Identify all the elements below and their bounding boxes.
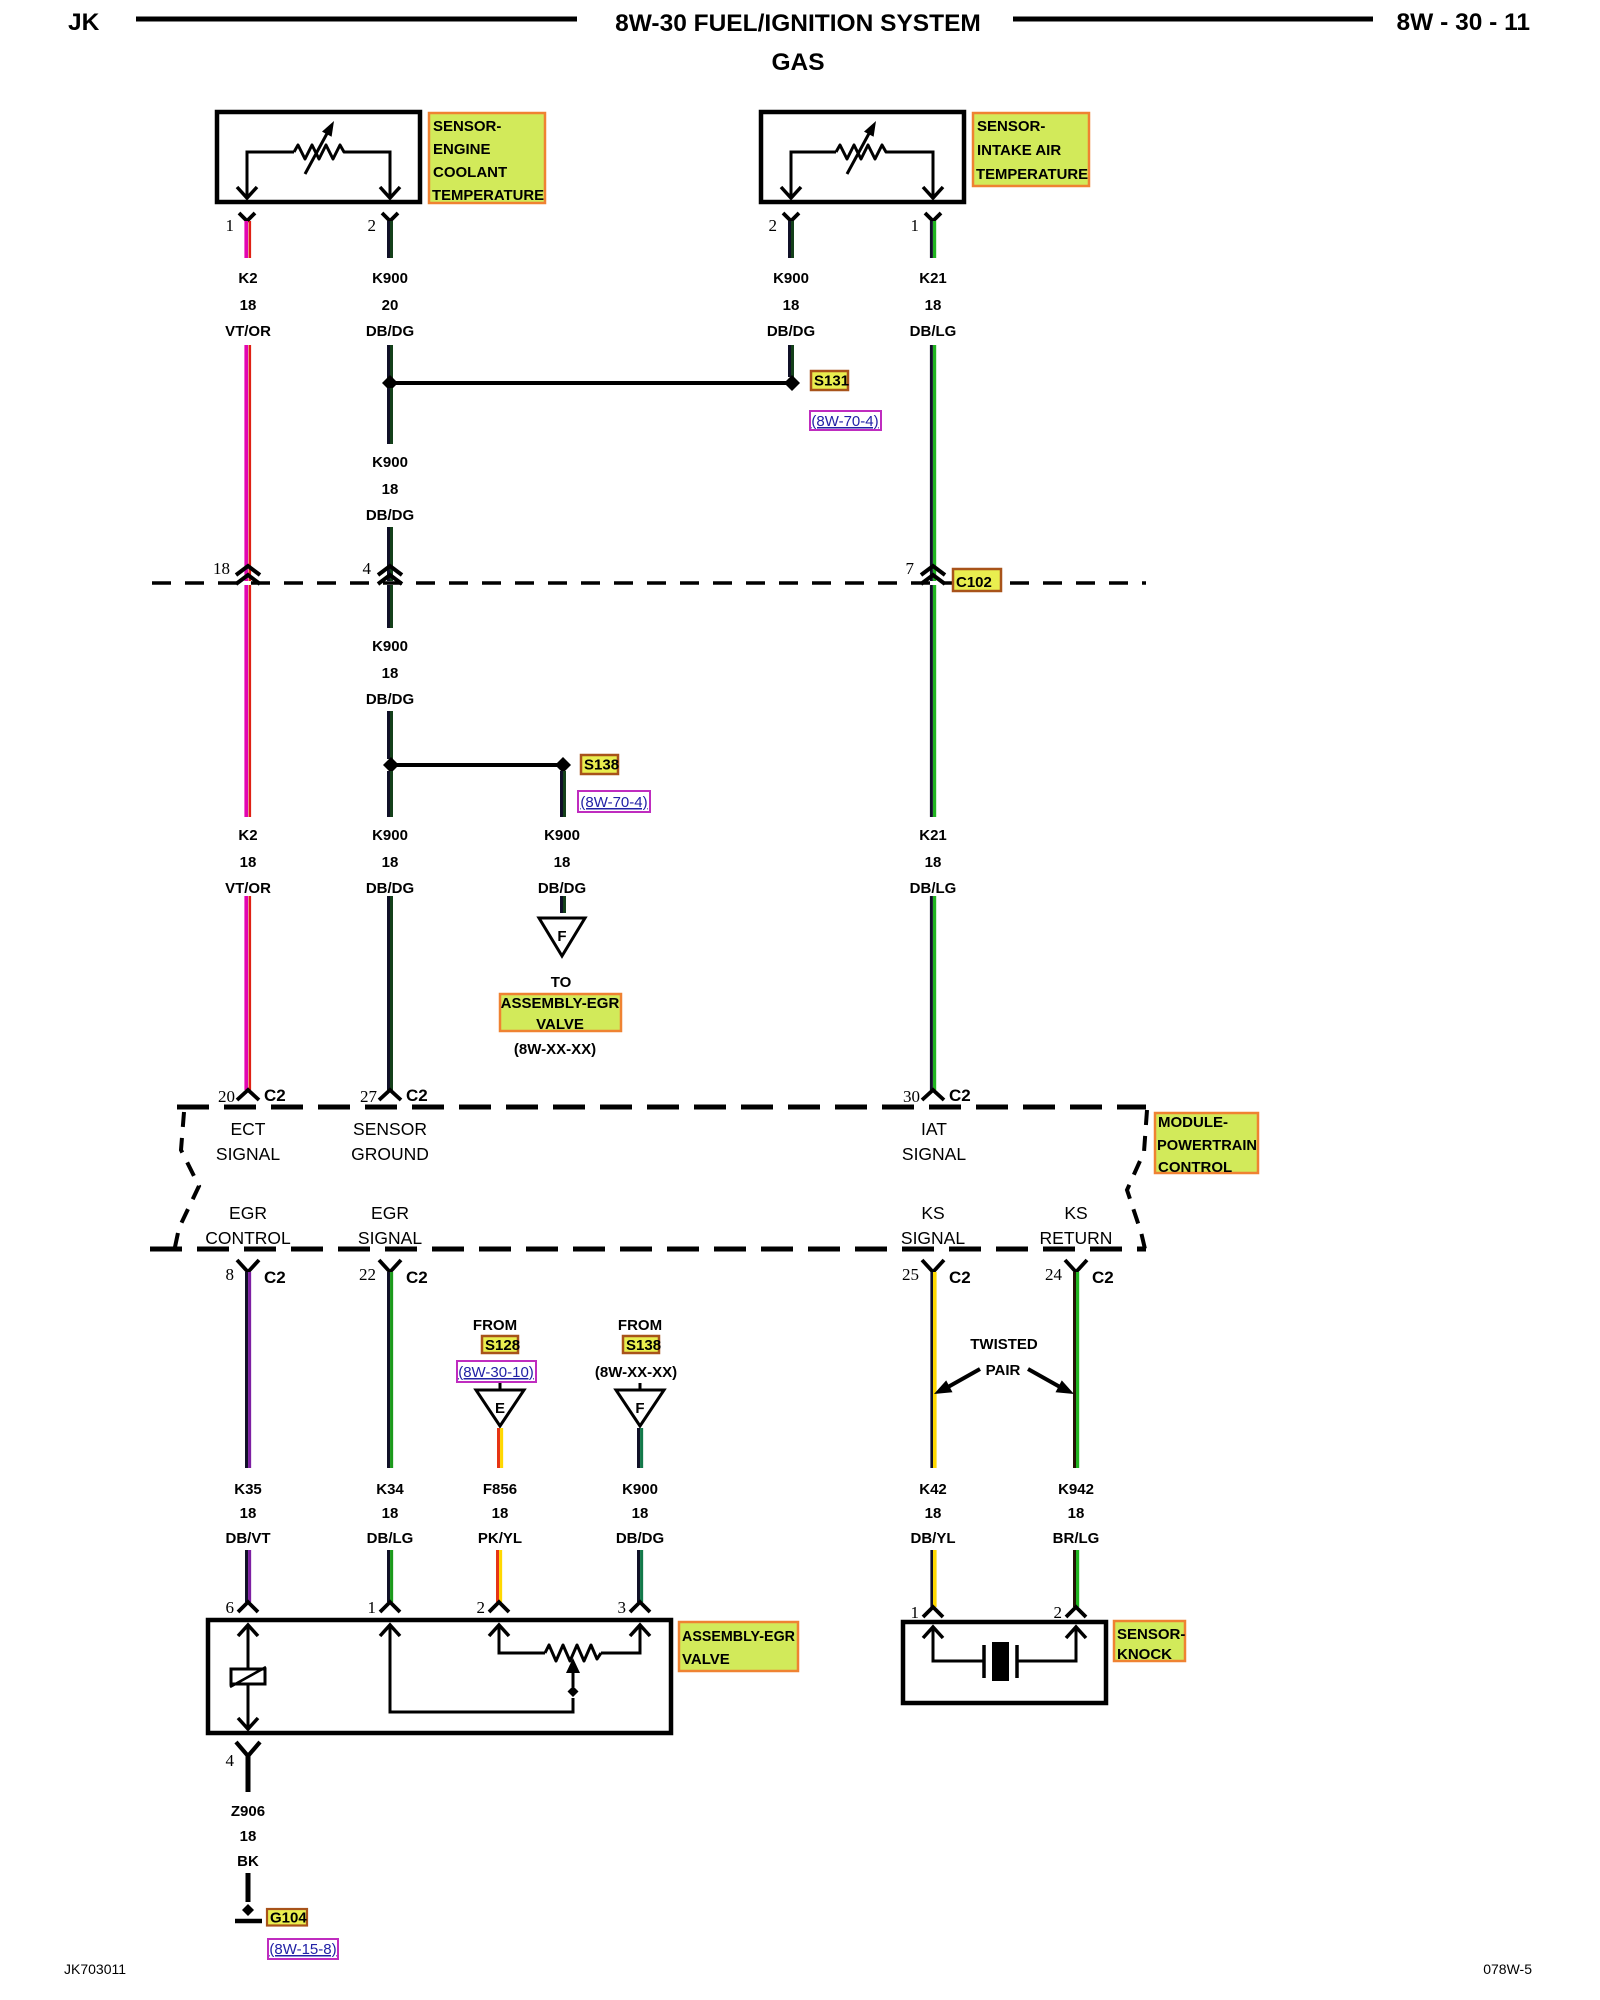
svg-text:PAIR: PAIR xyxy=(986,1362,1021,1379)
svg-text:SENSOR-: SENSOR- xyxy=(977,118,1045,135)
IAT pin 1 connector Y xyxy=(925,213,941,221)
splice S138 bus wire xyxy=(391,763,563,767)
wire K900 DB/DG stub below F xyxy=(639,1428,642,1468)
EGR pin 4 connector Y xyxy=(236,1742,260,1756)
svg-text:K2: K2 xyxy=(238,827,257,844)
EGR potentiometer resistor xyxy=(545,1645,601,1661)
splice tag S128 xyxy=(482,1336,520,1354)
svg-text:DB/DG: DB/DG xyxy=(538,880,586,897)
svg-text:K900: K900 xyxy=(372,454,408,471)
svg-text:18: 18 xyxy=(240,1828,257,1845)
svg-text:S138: S138 xyxy=(626,1337,661,1354)
svg-text:DB/LG: DB/LG xyxy=(367,1530,414,1547)
splice S138 junction diamond left xyxy=(383,757,399,773)
ECT pin 2 connector Y xyxy=(382,213,398,221)
wire K900 below C102 xyxy=(389,585,392,628)
wire K21 run below C102 xyxy=(931,585,934,817)
wire Z906 run to ground xyxy=(246,1873,251,1902)
EGR pin 6 internal arrowhead xyxy=(238,1625,258,1636)
svg-text:18: 18 xyxy=(382,481,399,498)
wire K900 run to EGR pin 3 xyxy=(639,1550,642,1602)
wire K900 branch stub above F symbol xyxy=(562,896,565,913)
svg-text:18: 18 xyxy=(783,297,800,314)
wire label K900 18 DB/DG xyxy=(366,454,414,524)
svg-text:1: 1 xyxy=(911,216,920,235)
sensor IAT box outline xyxy=(761,112,964,202)
svg-text:C2: C2 xyxy=(264,1268,286,1287)
wire K2 run below C102 xyxy=(246,585,250,817)
wire K942 BR/LG run xyxy=(1075,1272,1078,1468)
wire label K900 18 DB/DG xyxy=(366,827,414,897)
svg-text:PK/YL: PK/YL xyxy=(478,1530,522,1547)
sensor ECT box outline xyxy=(217,112,420,202)
svg-text:CONTROL: CONTROL xyxy=(1158,1159,1232,1176)
svg-text:18: 18 xyxy=(382,854,399,871)
EGR pin 2 connector caret xyxy=(489,1602,509,1612)
knock pin 2 connector caret xyxy=(1066,1607,1086,1617)
header rule left xyxy=(136,17,577,22)
wire label K900 18 DB/DG xyxy=(767,270,815,340)
svg-text:FROM: FROM xyxy=(473,1317,517,1334)
svg-text:F: F xyxy=(635,1400,644,1417)
svg-text:MODULE-: MODULE- xyxy=(1158,1114,1228,1131)
EGR pin 3 internal arrowhead xyxy=(630,1625,650,1636)
EGR solenoid feed wire xyxy=(247,1625,250,1668)
PCM pin 8 connector Y xyxy=(237,1260,259,1272)
svg-text:K34: K34 xyxy=(376,1481,404,1498)
splice tag S131 xyxy=(811,371,849,390)
label ASSEMBLY-EGR VALVE xyxy=(679,1622,798,1671)
wire K2 VT/OR pin stub xyxy=(246,221,250,258)
knock pin 2 internal arrowhead xyxy=(1066,1627,1086,1638)
svg-text:VALVE: VALVE xyxy=(682,1651,730,1668)
IAT pin 2 arrowhead xyxy=(781,187,801,198)
svg-text:DB/LG: DB/LG xyxy=(910,880,957,897)
link (8W-70-4) xyxy=(578,791,650,812)
svg-text:K35: K35 xyxy=(234,1481,262,1498)
wire label F856 18 PK/YL xyxy=(478,1481,522,1547)
svg-text:18: 18 xyxy=(1068,1505,1085,1522)
svg-text:18: 18 xyxy=(632,1505,649,1522)
PCM pin 27 connector caret xyxy=(379,1090,401,1100)
svg-text:(8W-XX-XX): (8W-XX-XX) xyxy=(595,1364,677,1381)
wire K21 DB/LG pin stub xyxy=(931,221,934,258)
PCM pin name IAT SIGNAL xyxy=(902,1119,966,1164)
svg-text:F856: F856 xyxy=(483,1481,517,1498)
wire label K2 18 VT/OR xyxy=(225,270,271,340)
off-page symbol E from S128 xyxy=(476,1383,524,1426)
wire label K900 18 DB/DG branch xyxy=(538,827,586,897)
label SENSOR-ENGINE COOLANT TEMPERATURE xyxy=(429,113,545,204)
IAT thermistor arrowhead xyxy=(864,121,876,137)
svg-text:ASSEMBLY-EGR: ASSEMBLY-EGR xyxy=(682,1628,795,1645)
svg-text:RETURN: RETURN xyxy=(1040,1228,1113,1248)
label SENSOR-KNOCK xyxy=(1114,1621,1185,1663)
svg-text:C2: C2 xyxy=(406,1086,428,1105)
wire K900 DB/DG pin stub xyxy=(389,221,392,258)
svg-text:E: E xyxy=(495,1400,505,1417)
svg-text:DB/YL: DB/YL xyxy=(911,1530,956,1547)
svg-text:20: 20 xyxy=(382,297,399,314)
svg-text:8W - 30 - 11: 8W - 30 - 11 xyxy=(1397,9,1530,36)
svg-text:18: 18 xyxy=(382,665,399,682)
svg-text:K900: K900 xyxy=(372,827,408,844)
EGR wiper junction diamond xyxy=(568,1686,579,1697)
wire K900 below S138 xyxy=(389,771,392,817)
svg-text:EGR: EGR xyxy=(229,1203,267,1223)
svg-text:4: 4 xyxy=(363,559,372,578)
knock element right lead xyxy=(1017,1627,1076,1661)
svg-text:C2: C2 xyxy=(406,1268,428,1287)
svg-text:18: 18 xyxy=(382,1505,399,1522)
svg-text:KS: KS xyxy=(1064,1203,1087,1223)
wire K35 DB/VT run xyxy=(247,1272,250,1468)
svg-text:COOLANT: COOLANT xyxy=(433,164,507,181)
wire label K2 18 VT/OR xyxy=(225,827,271,897)
svg-text:K2: K2 xyxy=(238,270,257,287)
svg-text:DB/DG: DB/DG xyxy=(366,507,414,524)
svg-text:DB/DG: DB/DG xyxy=(767,323,815,340)
EGR solenoid return wire xyxy=(247,1685,250,1729)
svg-text:VT/OR: VT/OR xyxy=(225,880,271,897)
svg-text:(8W-70-4): (8W-70-4) xyxy=(580,794,647,811)
svg-text:DB/DG: DB/DG xyxy=(366,880,414,897)
wire K900 run to C102 xyxy=(389,527,392,581)
svg-text:DB/LG: DB/LG xyxy=(910,323,957,340)
svg-text:(8W-15-8): (8W-15-8) xyxy=(269,1941,336,1958)
svg-text:TWISTED: TWISTED xyxy=(970,1336,1038,1353)
splice S131 bus wire xyxy=(390,381,792,385)
ground symbol G104 xyxy=(235,1904,262,1921)
svg-text:DB/DG: DB/DG xyxy=(616,1530,664,1547)
ECT pin 1 arrowhead xyxy=(237,187,257,198)
PCM left dashed bracket xyxy=(175,1112,199,1247)
wire label K35 18 DB/VT xyxy=(226,1481,271,1547)
svg-text:2: 2 xyxy=(1054,1603,1063,1622)
svg-text:BK: BK xyxy=(237,1853,259,1870)
svg-text:1: 1 xyxy=(911,1603,920,1622)
EGR valve box outline xyxy=(208,1620,671,1733)
ECT thermistor arrowhead xyxy=(322,121,334,137)
EGR pin 6 connector caret xyxy=(238,1602,258,1612)
link (8W-70-4) xyxy=(810,411,881,430)
svg-text:27: 27 xyxy=(360,1087,378,1106)
svg-text:18: 18 xyxy=(925,297,942,314)
PCM pin name ECT SIGNAL xyxy=(216,1119,280,1164)
svg-text:G104: G104 xyxy=(270,1910,307,1927)
connector tag C102 xyxy=(953,569,1001,591)
svg-text:JK703011: JK703011 xyxy=(64,1961,126,1977)
ECT internal thermistor wiring xyxy=(247,128,390,198)
PCM pin 30 connector caret xyxy=(922,1090,944,1100)
svg-text:2: 2 xyxy=(477,1598,486,1617)
svg-text:18: 18 xyxy=(925,854,942,871)
svg-text:Z906: Z906 xyxy=(231,1803,265,1820)
header rule right xyxy=(1013,17,1373,22)
ECT pin 2 arrowhead xyxy=(380,187,400,198)
svg-text:2: 2 xyxy=(769,216,778,235)
svg-text:INTAKE AIR: INTAKE AIR xyxy=(977,142,1061,159)
EGR potentiometer left lead xyxy=(499,1625,545,1653)
knock element left lead xyxy=(933,1627,984,1661)
wire K2 run to PCM pin 20 xyxy=(246,896,250,1090)
PCM pin name EGR SIGNAL xyxy=(358,1203,422,1248)
svg-text:K900: K900 xyxy=(372,638,408,655)
PCM pin 24 connector Y xyxy=(1065,1260,1087,1272)
svg-text:18: 18 xyxy=(240,297,257,314)
wire K21 run to C102 xyxy=(931,345,934,581)
svg-text:SENSOR-: SENSOR- xyxy=(433,118,501,135)
svg-text:EGR: EGR xyxy=(371,1203,409,1223)
ECT pin 1 connector Y xyxy=(239,213,255,221)
C102 chevrons wire K2 xyxy=(236,566,260,584)
svg-text:K900: K900 xyxy=(622,1481,658,1498)
wire K900 run to S138 xyxy=(389,711,392,759)
svg-text:K900: K900 xyxy=(372,270,408,287)
IAT internal thermistor wiring xyxy=(791,128,933,198)
note TWISTED PAIR xyxy=(970,1336,1038,1379)
EGR wiper return wiring xyxy=(390,1625,573,1712)
svg-text:18: 18 xyxy=(492,1505,509,1522)
svg-text:078W-5: 078W-5 xyxy=(1483,1961,1532,1977)
splice S131 junction diamond right xyxy=(784,375,800,391)
PCM bottom dashed boundary xyxy=(150,1247,1146,1252)
wire K900 run to splice S131 xyxy=(389,345,392,378)
svg-text:KNOCK: KNOCK xyxy=(1117,1646,1172,1663)
knock sensor box outline xyxy=(903,1622,1106,1703)
svg-text:SIGNAL: SIGNAL xyxy=(216,1144,280,1164)
svg-text:TO: TO xyxy=(551,974,572,991)
link (8W-15-8) xyxy=(268,1939,338,1959)
svg-text:DB/VT: DB/VT xyxy=(226,1530,271,1547)
wire K900 run to PCM pin 27 xyxy=(389,896,392,1090)
PCM pin 22 connector Y xyxy=(379,1260,401,1272)
wire K900 IAT pin 2 drop to splice S131 xyxy=(790,345,793,377)
svg-text:4: 4 xyxy=(226,1751,235,1770)
wire label K942 18 BR/LG xyxy=(1053,1481,1100,1547)
svg-text:30: 30 xyxy=(903,1087,920,1106)
wire K42 DB/YL run xyxy=(932,1272,935,1468)
svg-text:24: 24 xyxy=(1045,1265,1063,1284)
svg-text:JK: JK xyxy=(68,9,100,36)
svg-text:S128: S128 xyxy=(485,1337,520,1354)
link (8W-30-10) xyxy=(457,1361,536,1382)
knock piezo element xyxy=(984,1642,1017,1681)
svg-text:GAS: GAS xyxy=(771,49,824,76)
EGR pin 1 internal arrowhead xyxy=(380,1625,400,1636)
svg-text:22: 22 xyxy=(359,1265,376,1284)
svg-text:SIGNAL: SIGNAL xyxy=(358,1228,422,1248)
svg-text:ECT: ECT xyxy=(231,1119,266,1139)
PCM pin name KS RETURN xyxy=(1040,1203,1113,1248)
wire Z906 BK stub xyxy=(246,1756,251,1792)
svg-text:K900: K900 xyxy=(544,827,580,844)
svg-text:SENSOR: SENSOR xyxy=(353,1119,427,1139)
svg-text:(8W-XX-XX): (8W-XX-XX) xyxy=(514,1041,596,1058)
wire label K21 18 DB/LG xyxy=(910,270,957,340)
C102 chevrons wire K21 xyxy=(921,566,945,584)
svg-text:S131: S131 xyxy=(814,373,849,390)
svg-text:VALVE: VALVE xyxy=(536,1016,584,1033)
svg-text:7: 7 xyxy=(906,559,915,578)
svg-text:K21: K21 xyxy=(919,270,947,287)
IAT pin 2 connector Y xyxy=(783,213,799,221)
svg-text:FROM: FROM xyxy=(618,1317,662,1334)
svg-text:6: 6 xyxy=(226,1598,235,1617)
svg-text:1: 1 xyxy=(226,216,235,235)
svg-text:C2: C2 xyxy=(949,1086,971,1105)
svg-text:S138: S138 xyxy=(584,757,619,774)
IAT pin 1 arrowhead xyxy=(923,187,943,198)
wire label Z906 18 BK xyxy=(231,1803,265,1870)
ground tag G104 xyxy=(267,1909,307,1927)
wire K900 branch drop from S138 xyxy=(562,771,565,817)
wire K42 run to knock pin 1 xyxy=(932,1550,935,1607)
EGR wiper arrow xyxy=(566,1658,580,1687)
wire K900 DB/DG IAT pin stub xyxy=(790,221,793,258)
svg-text:CONTROL: CONTROL xyxy=(205,1228,291,1248)
svg-text:K942: K942 xyxy=(1058,1481,1094,1498)
svg-text:(8W-70-4): (8W-70-4) xyxy=(811,413,878,430)
EGR pin 3 connector caret xyxy=(630,1602,650,1612)
wire label K900 18 DB/DG xyxy=(616,1481,664,1547)
label MODULE-POWERTRAIN CONTROL xyxy=(1155,1113,1258,1176)
label SENSOR-INTAKE AIR TEMPERATURE xyxy=(973,113,1089,186)
svg-text:C102: C102 xyxy=(956,574,992,591)
svg-text:TEMPERATURE: TEMPERATURE xyxy=(976,166,1088,183)
svg-text:F: F xyxy=(557,928,566,945)
svg-text:BR/LG: BR/LG xyxy=(1053,1530,1100,1547)
twisted pair arrow right xyxy=(1028,1369,1074,1394)
PCM pin name SENSOR GROUND xyxy=(351,1119,429,1164)
PCM top dashed boundary xyxy=(177,1105,1146,1110)
wire K942 run to knock pin 2 xyxy=(1075,1550,1078,1607)
splice S138 junction diamond right xyxy=(555,757,571,773)
wire K34 DB/LG run xyxy=(389,1272,392,1468)
wire label K900 20 DB/DG xyxy=(366,270,414,340)
svg-text:3: 3 xyxy=(618,1598,627,1617)
wire label K42 18 DB/YL xyxy=(911,1481,956,1547)
EGR solenoid symbol xyxy=(230,1667,266,1687)
svg-text:KS: KS xyxy=(921,1203,944,1223)
svg-text:DB/DG: DB/DG xyxy=(366,691,414,708)
EGR pin 2 internal arrowhead xyxy=(489,1625,509,1636)
svg-text:20: 20 xyxy=(218,1087,235,1106)
wire label K21 18 DB/LG xyxy=(910,827,957,897)
svg-text:C2: C2 xyxy=(1092,1268,1114,1287)
svg-text:ENGINE: ENGINE xyxy=(433,141,491,158)
off-page symbol F to EGR valve xyxy=(539,918,585,956)
EGR pin 4 internal arrowhead xyxy=(238,1718,258,1729)
connector C102 dashed line xyxy=(152,581,1146,585)
svg-text:IAT: IAT xyxy=(921,1119,947,1139)
splice S131 junction diamond left xyxy=(382,375,398,391)
wire F856 run to EGR pin 2 xyxy=(498,1550,501,1602)
svg-text:25: 25 xyxy=(902,1265,919,1284)
splice tag S138 xyxy=(581,755,619,774)
svg-text:DB/DG: DB/DG xyxy=(366,323,414,340)
svg-text:18: 18 xyxy=(240,854,257,871)
twisted pair arrow left xyxy=(934,1369,980,1394)
wire label K34 18 DB/LG xyxy=(367,1481,414,1547)
svg-text:TEMPERATURE: TEMPERATURE xyxy=(432,187,544,204)
svg-text:18: 18 xyxy=(213,559,230,578)
EGR potentiometer right lead xyxy=(601,1625,640,1653)
svg-text:1: 1 xyxy=(368,1598,377,1617)
wire K2 run to C102 xyxy=(246,345,250,581)
svg-text:(8W-30-10): (8W-30-10) xyxy=(458,1364,534,1381)
svg-text:18: 18 xyxy=(925,1505,942,1522)
svg-text:GROUND: GROUND xyxy=(351,1144,429,1164)
label ASSEMBLY-EGR VALVE destination xyxy=(500,994,621,1033)
EGR pin 1 connector caret xyxy=(380,1602,400,1612)
wire K21 run to PCM pin 30 xyxy=(931,896,934,1090)
svg-text:K42: K42 xyxy=(919,1481,947,1498)
knock pin 1 internal arrowhead xyxy=(923,1627,943,1638)
svg-text:C2: C2 xyxy=(949,1268,971,1287)
wire K35 run to EGR pin 6 xyxy=(247,1550,250,1602)
PCM pin name EGR CONTROL xyxy=(205,1203,291,1248)
C102 chevrons wire K900 xyxy=(378,566,402,584)
svg-text:18: 18 xyxy=(554,854,571,871)
svg-text:POWERTRAIN: POWERTRAIN xyxy=(1157,1137,1257,1154)
PCM pin 20 connector caret xyxy=(237,1090,259,1100)
PCM right dashed bracket xyxy=(1127,1110,1147,1249)
svg-text:K900: K900 xyxy=(773,270,809,287)
svg-text:2: 2 xyxy=(368,216,377,235)
svg-text:8W-30 FUEL/IGNITION SYSTEM: 8W-30 FUEL/IGNITION SYSTEM xyxy=(615,10,981,37)
wire F856 PK/YL stub below E xyxy=(499,1428,502,1468)
wire K34 run to EGR pin 1 xyxy=(389,1550,392,1602)
svg-text:SIGNAL: SIGNAL xyxy=(901,1228,965,1248)
wire label K900 18 DB/DG xyxy=(366,638,414,708)
PCM pin 25 connector Y xyxy=(922,1260,944,1272)
svg-text:8: 8 xyxy=(226,1265,235,1284)
svg-text:K21: K21 xyxy=(919,827,947,844)
svg-text:SIGNAL: SIGNAL xyxy=(902,1144,966,1164)
off-page symbol F from S138 xyxy=(616,1383,664,1426)
splice tag S138 xyxy=(623,1336,661,1354)
svg-text:SENSOR-: SENSOR- xyxy=(1117,1626,1185,1643)
svg-text:C2: C2 xyxy=(264,1086,286,1105)
wire K900 below S131 xyxy=(389,388,392,444)
knock pin 1 connector caret xyxy=(923,1607,943,1617)
svg-text:18: 18 xyxy=(240,1505,257,1522)
svg-text:VT/OR: VT/OR xyxy=(225,323,271,340)
PCM pin name KS SIGNAL xyxy=(901,1203,965,1248)
svg-text:ASSEMBLY-EGR: ASSEMBLY-EGR xyxy=(501,995,620,1012)
